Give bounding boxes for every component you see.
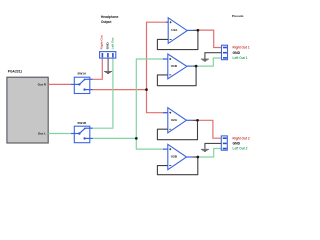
switch SW1B (71, 121, 93, 143)
wire: U2B feedback to inverting input (157, 157, 197, 175)
node R junction (145, 88, 148, 91)
wire: U1B feedback to inverting input (157, 66, 196, 86)
wire: U2A output tap to feedback (192, 119, 197, 121)
wire: U1A feedback to inverting input (157, 30, 198, 49)
connector J2 preout 1 (222, 45, 228, 60)
ground: preout 2 (201, 149, 209, 151)
svg-text:Right Out: Right Out (100, 35, 104, 49)
wire: node L down to U2B + input (136, 138, 168, 149)
svg-text:Out R: Out R (38, 82, 47, 86)
wire: SW1B bottom throw to node L (93, 137, 136, 139)
wire: preout2 GND pin to ground (205, 143, 221, 148)
op-amp U2B (163, 144, 193, 169)
svg-text:SW1A: SW1A (77, 71, 87, 75)
wire: U2A output to preout2 Right pin (198, 120, 222, 138)
node: U2B output junction (196, 156, 199, 159)
op-amp U1A (166, 18, 193, 44)
svg-text:U2B: U2B (171, 155, 178, 159)
wire: node L up to U1B + input (136, 59, 168, 138)
IC U3 PGA2311 volume control (7, 70, 48, 143)
switch SW1A (71, 71, 93, 93)
wire: U2B output to preout2 Left pin (198, 149, 222, 158)
node L junction (135, 137, 138, 140)
svg-text:Left Out 2: Left Out 2 (233, 147, 248, 151)
svg-text:GND: GND (233, 51, 241, 55)
node: U1B output junction (195, 65, 198, 68)
ground: headphone jack (104, 71, 112, 73)
svg-text:U1B: U1B (171, 64, 178, 68)
svg-text:Left Out 1: Left Out 1 (233, 56, 248, 60)
op-amp U1B (163, 54, 193, 79)
wire: node R down to U2A + input (147, 90, 168, 113)
wire: PGA2311 Out L to SW1B common (48, 133, 71, 135)
svg-text:Right Out 2: Right Out 2 (233, 136, 250, 140)
wire: headphone GND pin down (107, 58, 109, 71)
svg-text:Preouts: Preouts (232, 14, 244, 18)
svg-text:SW1B: SW1B (77, 121, 87, 125)
wire: U1B output tap to feedback (193, 65, 196, 67)
connector J1 headphone output (100, 52, 116, 59)
svg-text:GND: GND (105, 42, 109, 50)
svg-text:Left Out: Left Out (111, 38, 115, 50)
wire: U1A output to preout1 Right pin (198, 30, 222, 47)
svg-text:GND: GND (233, 142, 241, 146)
label: Headphone Output (101, 15, 119, 24)
wire: node R up to U1A + input (147, 22, 169, 89)
op-amp U2A (163, 108, 192, 133)
wire: SW1B top throw to headphone Left pin (93, 58, 113, 128)
svg-text:Output: Output (101, 20, 112, 24)
wire: U1B output to preout1 Left pin (196, 58, 221, 66)
wire: U1A output tap to feedback (193, 29, 198, 31)
svg-text:Right Out 1: Right Out 1 (233, 46, 250, 50)
wire: SW1A bottom throw to node R (93, 89, 147, 91)
wire: U2A feedback to inverting input (157, 120, 197, 139)
svg-text:Headphone: Headphone (101, 15, 119, 19)
ground: preout 1 (201, 59, 209, 61)
node: U2A output junction (196, 119, 199, 122)
wire: preout1 GND pin to ground (205, 53, 222, 59)
svg-text:PGA2311: PGA2311 (8, 70, 22, 74)
svg-text:U1A: U1A (171, 28, 178, 32)
wire: U2B output tap to feedback (192, 156, 197, 158)
node: U1A output junction (197, 29, 200, 32)
wire: SW1A top throw to headphone Right pin (93, 58, 102, 79)
connector J3 preout 2 (221, 136, 227, 150)
wire: PGA2311 Out R to SW1A common (48, 83, 71, 85)
svg-text:U2A: U2A (171, 118, 178, 122)
svg-text:Out L: Out L (38, 132, 46, 136)
